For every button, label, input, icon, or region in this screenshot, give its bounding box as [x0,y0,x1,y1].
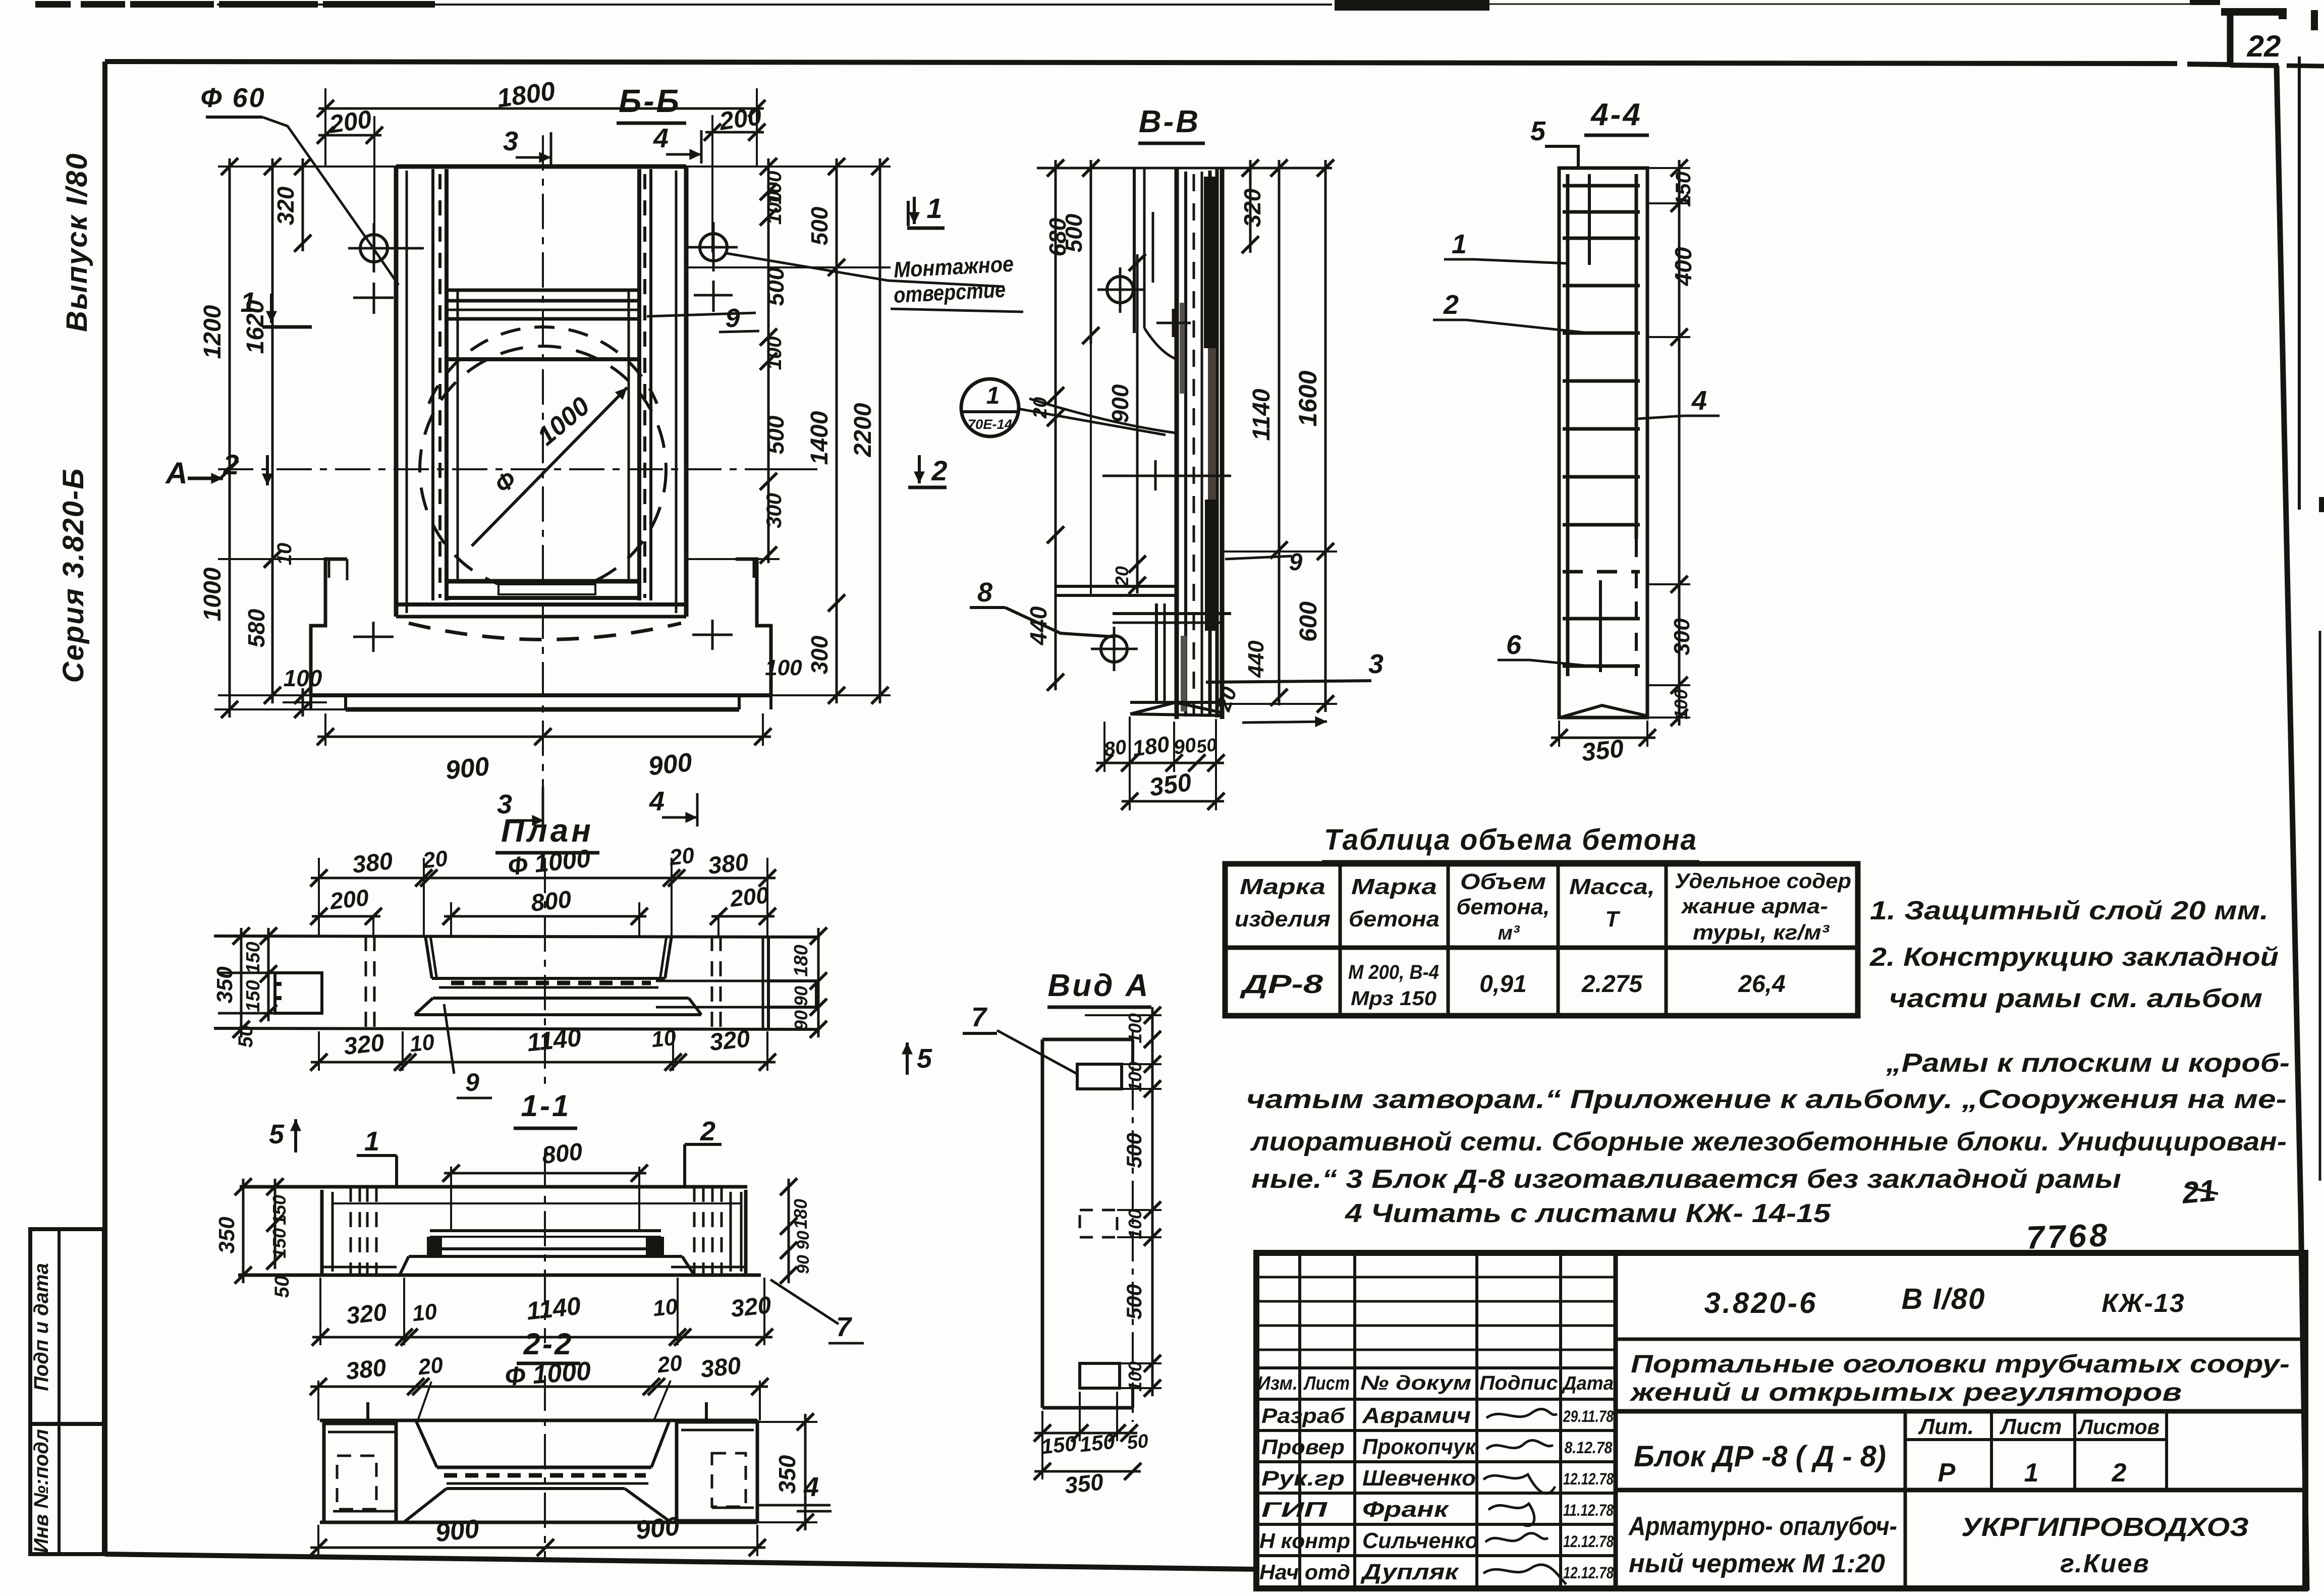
svg-text:50: 50 [1126,1430,1149,1454]
svg-text:150: 150 [243,980,264,1012]
cross mark below right hole [694,294,733,297]
right dim chain mid 500 1400 300 [836,158,838,703]
dimension 200 top-right [705,131,764,134]
cross mark below left hole [353,297,394,299]
svg-text:Вид А: Вид А [1048,968,1150,1003]
svg-text:100: 100 [1125,1209,1145,1239]
svg-text:4-4: 4-4 [1590,97,1642,132]
svg-text:Мрз 150: Мрз 150 [1351,987,1436,1010]
svg-text:3: 3 [503,126,518,156]
svg-text:8.12.78: 8.12.78 [1565,1439,1613,1457]
План dim row 200 800 200 [312,915,380,918]
План left dims 350 150 150 50 [240,928,243,1037]
svg-text:350: 350 [1147,768,1193,802]
2-2 centerline [544,1375,546,1559]
svg-text:70Е-14: 70Е-14 [968,417,1012,432]
svg-text:Лит.: Лит. [1918,1414,1974,1439]
svg-text:300: 300 [762,493,786,528]
2-2 left block dashed insert [337,1456,376,1509]
svg-text:6: 6 [1506,630,1522,660]
svg-text:4: 4 [803,1472,819,1502]
1-1 bearing pad left [427,1237,442,1255]
svg-text:180: 180 [791,945,812,976]
2-2 trough walls [416,1420,437,1467]
right dim chain outer 2200 [879,158,881,703]
embedded frame vertical right [628,290,630,581]
cross mark right below ledge [692,634,733,636]
svg-text:900: 900 [647,748,693,782]
svg-text:Провер: Провер [1261,1435,1345,1459]
svg-text:Подпис: Подпис [1480,1372,1558,1394]
diameter arrow Ф1000 [472,388,627,546]
svg-text:5: 5 [1530,116,1546,146]
svg-text:Ф 1000: Ф 1000 [507,844,592,881]
svg-text:320: 320 [345,1299,388,1330]
2-2 body bottom line [320,1521,757,1524]
svg-text:800: 800 [530,886,573,917]
В-В lower bracket [1155,603,1158,702]
1-1 hidden dashed right pair B [711,1187,714,1275]
План trough walls [425,936,432,978]
svg-text:900: 900 [434,1514,480,1548]
svg-text:150: 150 [243,942,264,973]
2-2 left block inner top line [328,1431,396,1434]
svg-text:ный чертеж М 1:20: ный чертеж М 1:20 [1629,1549,1885,1578]
svg-text:320: 320 [1239,188,1265,227]
В-В right dim chain 320 [1249,160,1252,253]
4-4 lower rungs [1563,617,1640,621]
svg-text:ные.“ 3 Блок Д-8 изготавл: ные.“ 3 Блок Д-8 изготавливается без зак… [1251,1165,2121,1194]
svg-text:100: 100 [763,191,786,225]
svg-text:Разраб: Разраб [1261,1404,1345,1427]
scan artifact top dashed strip [35,1,71,8]
table header divider [1225,946,1858,950]
План hidden wall dashed left [365,936,367,1028]
4-4 bottom slant line [1560,705,1646,718]
svg-text:2: 2 [223,449,239,480]
svg-text:180: 180 [790,1199,811,1229]
svg-text:180: 180 [1131,732,1171,761]
svg-text:1: 1 [1452,229,1467,259]
outer wall left of U [394,167,399,617]
1-1 right dims 180 90 90 [788,1179,790,1283]
svg-text:Прокопчук: Прокопчук [1362,1435,1477,1459]
svg-text:350: 350 [774,1455,800,1494]
Вид А bottom notch [1080,1363,1120,1388]
svg-text:1-1: 1-1 [521,1089,571,1123]
svg-text:90: 90 [794,1255,813,1274]
svg-text:1400: 1400 [806,411,833,465]
title block Лит Лист Листов columns [1904,1411,1907,1588]
svg-text:Арматурно- опалубоч-: Арматурно- опалубоч- [1628,1512,1897,1541]
Вид А bottom dim 150 150 50 [1034,1432,1137,1435]
left ledge profile [311,559,347,695]
4-4 bottom inner bar [1599,580,1602,672]
table column lines [1339,864,1342,1016]
svg-text:12.12.78: 12.12.78 [1563,1470,1614,1488]
svg-text:50: 50 [1195,734,1218,757]
1-1 right end block [730,1192,732,1272]
svg-text:100: 100 [763,337,786,370]
title block main vertical divider [1614,1253,1618,1588]
svg-text:Серия 3.820-Б: Серия 3.820-Б [57,468,90,683]
title block left column lines [1298,1253,1301,1588]
svg-text:100: 100 [765,655,802,680]
svg-text:100: 100 [284,665,322,691]
svg-text:20: 20 [417,1353,445,1380]
svg-text:отверстие: отверстие [893,277,1006,308]
interior floor lines [447,579,639,584]
В-В bottom slanted base [1130,702,1221,714]
Вид А right dim chain [1151,1007,1154,1396]
svg-text:380: 380 [345,1354,388,1385]
План dim row 380 20 Ф1000 20 380 [311,877,776,879]
План hidden wall dashed right [711,936,713,1028]
2-2 slab trapezoid [447,1487,625,1490]
svg-text:ГИП: ГИП [1261,1498,1327,1521]
svg-text:„Рамы к плоским и короб-: „Рамы к плоским и короб- [1886,1049,2290,1078]
4-4 outer rectangle [1559,168,1647,718]
svg-text:2: 2 [931,455,947,486]
1-1 centerline [544,1152,546,1343]
svg-text:Шевченко: Шевченко [1362,1466,1476,1491]
svg-text:В I/80: В I/80 [1902,1283,1986,1315]
2-2 left end block [324,1423,396,1522]
В-В right dim chain 1140 440 120 [1278,160,1281,705]
svg-text:бетона: бетона [1349,907,1440,931]
svg-text:200: 200 [328,884,370,914]
svg-text:440: 440 [1025,606,1052,645]
svg-text:320: 320 [343,1029,385,1060]
embedded frame vertical left [457,290,459,581]
svg-text:400: 400 [1670,247,1696,286]
Вид А right edge axis [1132,1029,1134,1422]
svg-text:10: 10 [411,1299,438,1327]
4-4 right rebar [1635,174,1638,539]
svg-text:300: 300 [806,635,833,674]
1-1 bearing pad right [646,1237,664,1255]
svg-text:500: 500 [762,415,789,454]
2-2 right dim 350 [804,1414,807,1530]
svg-text:9: 9 [726,304,740,333]
svg-text:500: 500 [762,267,789,306]
svg-text:350: 350 [214,1217,239,1254]
svg-text:100: 100 [1125,1013,1145,1043]
2-2 leader 20 left [418,1382,431,1420]
svg-text:800: 800 [541,1138,584,1169]
4-4 right dim chain 150 400 300 100 [1678,160,1681,726]
signatures squiggles [1486,1409,1557,1418]
План body bottom edge [214,1028,820,1029]
dimension 200 top-left [318,134,381,137]
svg-text:Марка: Марка [1351,874,1437,899]
svg-text:0,91: 0,91 [1479,971,1526,998]
2-2 top tick left [366,1402,369,1420]
svg-text:Марка: Марка [1240,874,1325,899]
svg-text:50: 50 [271,1276,293,1298]
floor slab white strip [499,584,595,594]
В-В left dim chain 900 20 [1136,254,1139,593]
В-В mounting hole bottom [1101,636,1127,662]
svg-text:5: 5 [269,1119,285,1149]
section mark 3 bottom [542,787,544,832]
В-В left dim chain 500 [1090,160,1092,344]
section mark 2 right [918,455,921,483]
svg-text:туры, кг/м³: туры, кг/м³ [1693,920,1830,944]
svg-text:500: 500 [1061,213,1087,252]
svg-text:10: 10 [273,543,296,566]
В-В mid horizontal line [1102,475,1231,477]
Вид А middle dashed recess [1080,1210,1117,1237]
title block outer frame [1256,1253,2305,1588]
4-4 dashed rung [1563,570,1640,574]
svg-text:2.275: 2.275 [1581,971,1643,998]
В-В cross below top hole [1156,322,1191,324]
right edge scan line [2319,631,2321,1181]
svg-text:Портальные оголовки трубчаты: Портальные оголовки трубчатых соору- [1631,1350,2290,1378]
svg-text:380: 380 [707,849,750,879]
svg-text:Т: Т [1606,907,1621,931]
scan artifact top black blob [1335,0,1489,11]
1-1 dim row 320 10 1140 10 320 [312,1336,772,1339]
svg-text:5: 5 [917,1043,932,1074]
svg-text:20: 20 [1030,397,1051,419]
svg-text:бетона,: бетона, [1457,895,1550,919]
svg-text:4 Читать с листами КЖ- 14-: 4 Читать с листами КЖ- 14-15 [1345,1199,1831,1228]
План body right end verticals [762,937,764,1029]
svg-text:7: 7 [836,1312,853,1342]
2-2 dim row 380 20 20 380 [310,1386,768,1388]
svg-text:22: 22 [2247,29,2281,63]
svg-text:150: 150 [1671,172,1695,207]
svg-text:350: 350 [212,966,237,1004]
svg-text:Франк: Франк [1362,1497,1450,1522]
left wall inner liner [431,169,434,600]
svg-text:Удельное содер: Удельное содер [1675,869,1851,893]
Вид А bottom dim 350 [1034,1470,1141,1473]
svg-text:380: 380 [699,1352,742,1383]
svg-text:План: План [501,812,594,849]
svg-text:2: 2 [1443,290,1459,320]
svg-text:1: 1 [240,286,256,318]
1-1 left end block [320,1190,324,1274]
План body top edge [214,936,820,937]
svg-text:300: 300 [1670,618,1694,655]
left dim 580 [271,551,274,703]
svg-text:М 200, В-4: М 200, В-4 [1348,961,1439,983]
В-В lower arrow dim [1242,722,1327,723]
4-4 top inner bar [1588,174,1591,265]
svg-text:320: 320 [272,186,299,225]
svg-text:Сильченко: Сильченко [1362,1528,1478,1553]
svg-text:Дупляк: Дупляк [1360,1560,1460,1584]
svg-text:1140: 1140 [526,1023,583,1057]
Вид А body outline [1041,1039,1044,1408]
2-2 leader 20 right [654,1381,671,1420]
svg-text:1140: 1140 [1248,389,1275,441]
2-2 right block dashed insert [712,1453,746,1507]
svg-text:1140: 1140 [525,1292,582,1326]
table frame [1225,864,1858,1016]
svg-text:жений и открытых регуляторо: жений и открытых регуляторов [1629,1378,2182,1406]
1-1 hidden dashed right pair A [693,1187,696,1275]
svg-text:320: 320 [708,1025,751,1056]
interior shelf line [447,357,639,361]
svg-text:А: А [164,456,187,490]
svg-text:50: 50 [235,1025,257,1048]
svg-text:900: 900 [1107,384,1133,423]
2-2 body top edge [320,1419,757,1422]
svg-text:150: 150 [1078,1429,1116,1457]
svg-text:1000: 1000 [532,392,595,452]
2-2 right block inner top line [681,1429,754,1432]
1-1 left dims 350 150 150 50 [242,1179,245,1283]
svg-text:580: 580 [243,609,269,647]
right extension lines [686,166,891,168]
svg-text:90: 90 [791,986,811,1006]
svg-text:1: 1 [926,192,942,224]
svg-text:100: 100 [1671,689,1691,720]
svg-text:1600: 1600 [1294,370,1322,426]
svg-text:12.12.78: 12.12.78 [1563,1564,1614,1582]
1-1 body bottom edge [238,1274,761,1277]
svg-text:Масса,: Масса, [1569,874,1655,899]
svg-text:1: 1 [364,1126,379,1157]
svg-text:г.Киев: г.Киев [2060,1549,2150,1578]
svg-text:жание арма-: жание арма- [1681,894,1828,918]
svg-text:20: 20 [421,846,449,873]
План left box edge lines [218,972,275,974]
centerline horizontal of Б-Б [218,468,780,470]
svg-text:1200: 1200 [199,305,226,359]
label Монтажное отверстие with leader [727,253,1004,287]
4-4 left rebar [1566,174,1570,676]
title block separator lines right part [1616,1338,2305,1341]
foundation slab lines [311,693,771,697]
svg-text:320: 320 [730,1292,772,1323]
svg-text:10: 10 [652,1294,679,1322]
outer wall right of U [684,167,689,617]
План trough heavy dashed rebar [451,981,651,985]
svg-text:20: 20 [656,1351,684,1378]
svg-text:9: 9 [465,1068,479,1096]
bottom dim 900 900 [317,736,771,738]
left extension lines [218,166,447,168]
title block upper revision rows [1256,1276,1616,1279]
В-В extension lines right [1221,551,1337,553]
svg-text:чатым затворам.“ Приложение: чатым затворам.“ Приложение к альбому. „… [1246,1085,2287,1114]
1-1 dim 800 top [444,1172,646,1175]
svg-text:500: 500 [806,206,833,245]
svg-text:2: 2 [2112,1458,2127,1488]
svg-text:Лист: Лист [2000,1414,2062,1439]
4-4 bottom dim 350 [1551,737,1655,739]
1-1 slab below [409,1255,682,1258]
svg-text:изделия: изделия [1235,907,1331,931]
svg-text:Н контр: Н контр [1259,1529,1350,1553]
mounting hole left [360,235,388,262]
4-4 rungs [1563,184,1640,188]
svg-text:Нач отд: Нач отд [1259,1560,1350,1584]
svg-text:8: 8 [977,577,992,608]
План left box hatch ticks [275,982,282,986]
svg-text:3.820-6: 3.820-6 [1704,1287,1818,1319]
1-1 hidden dashed left pair A [350,1187,352,1275]
svg-text:4: 4 [1691,386,1707,416]
svg-text:Листов: Листов [2077,1415,2160,1439]
svg-text:26,4: 26,4 [1738,971,1785,998]
2-2 top tick right [705,1402,708,1420]
svg-text:Ф: Ф [490,466,522,499]
svg-text:150: 150 [269,1228,290,1258]
В-В bottom dim 350 [1122,800,1224,803]
svg-text:Подп и дата: Подп и дата [30,1263,52,1391]
svg-text:Ф 60: Ф 60 [200,83,265,113]
svg-text:Объем: Объем [1460,869,1546,894]
План section mark 5 right [906,1042,909,1075]
U outer bottom lines [396,602,686,607]
svg-text:11.12.78: 11.12.78 [1563,1501,1614,1519]
cross mark left below ledge [353,636,394,638]
2-2 label 4 leader [757,1504,831,1507]
svg-text:Дата: Дата [1562,1373,1614,1394]
svg-text:12.12.78: 12.12.78 [1563,1532,1614,1551]
svg-text:Изм.: Изм. [1257,1373,1298,1394]
svg-text:900: 900 [634,1512,681,1546]
svg-text:Б-Б: Б-Б [619,83,681,119]
svg-text:500: 500 [1122,1284,1146,1319]
dimension 1800 top [318,107,764,110]
2-2 right end block [677,1422,757,1521]
svg-text:лиоративной сети. Сборные ж: лиоративной сети. Сборные железобетонные… [1250,1127,2287,1157]
svg-text:200: 200 [728,882,770,912]
svg-text:10: 10 [409,1030,436,1057]
svg-text:9: 9 [1289,549,1303,576]
svg-text:части рамы см. альбом: части рамы см. альбом [1889,984,2262,1013]
1-1 top inner line [333,1202,741,1204]
scan artifact top right corner [2190,0,2220,5]
svg-text:600: 600 [1295,601,1322,642]
План left end box [275,973,322,1013]
interior top beam lines [447,289,639,292]
dashed arc below floor [409,623,681,640]
В-В right dim chain 1600 600 [1324,160,1327,712]
Вид А top notch [1077,1064,1122,1089]
svg-text:90: 90 [791,1010,811,1030]
svg-text:20: 20 [1112,566,1132,587]
svg-text:ДР-8: ДР-8 [1240,970,1323,999]
В-В label 9 leader [1225,556,1292,559]
left dim chain 1620 [271,158,274,567]
2-2 left block inner bottom line [333,1510,396,1513]
В-В left dim chain 680 20 440 [1055,160,1057,690]
svg-text:150: 150 [1040,1432,1078,1459]
svg-text:Таблица объема бетона: Таблица объема бетона [1324,823,1697,856]
svg-text:3: 3 [1368,649,1384,679]
svg-text:Выпуск I/80: Выпуск I/80 [61,152,93,332]
В-В lower double lines [1056,585,1177,588]
svg-text:500: 500 [1122,1133,1146,1168]
sheet border frame [105,62,2177,64]
В-В leader curve from callout [1029,399,1176,433]
svg-text:4: 4 [649,786,665,816]
В-В label 3 leader [1206,681,1371,682]
План centerline vertical [544,858,546,1090]
page number box 22 [2227,9,2234,66]
svg-text:4: 4 [653,123,669,153]
svg-text:100: 100 [1125,1062,1145,1092]
svg-text:1: 1 [986,382,1000,409]
